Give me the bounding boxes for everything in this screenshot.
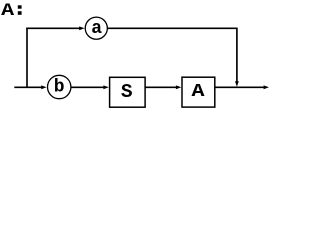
box S — [110, 77, 146, 107]
arrowhead into box A — [176, 85, 181, 89]
arrowhead exit — [264, 85, 269, 89]
box A — [182, 77, 215, 107]
svg-text:b: b — [54, 78, 65, 98]
svg-text:A: A — [192, 82, 205, 102]
wire b to S — [71, 86, 104, 88]
node a (circle) — [85, 17, 107, 39]
wire branch vertical (split up to top path) — [26, 28, 28, 88]
svg-text:S: S — [121, 81, 133, 103]
wire down (right vertical) — [236, 28, 238, 81]
svg-text:A: A — [1, 1, 15, 21]
wire entry (bottom-left horizontal into node b) — [14, 86, 42, 88]
arrowhead down into exit wire — [235, 81, 239, 86]
wire S to A — [145, 86, 176, 88]
node b (circle) — [48, 75, 71, 98]
arrowhead into node a — [79, 26, 84, 30]
wire from a to right corner — [108, 27, 238, 29]
arrowhead into node b — [41, 85, 46, 89]
svg-text:a: a — [91, 19, 102, 39]
wire exit (from box A to right edge) — [215, 86, 265, 88]
wire top (horizontal toward node a) — [26, 27, 80, 29]
arrowhead into box S — [103, 85, 108, 89]
